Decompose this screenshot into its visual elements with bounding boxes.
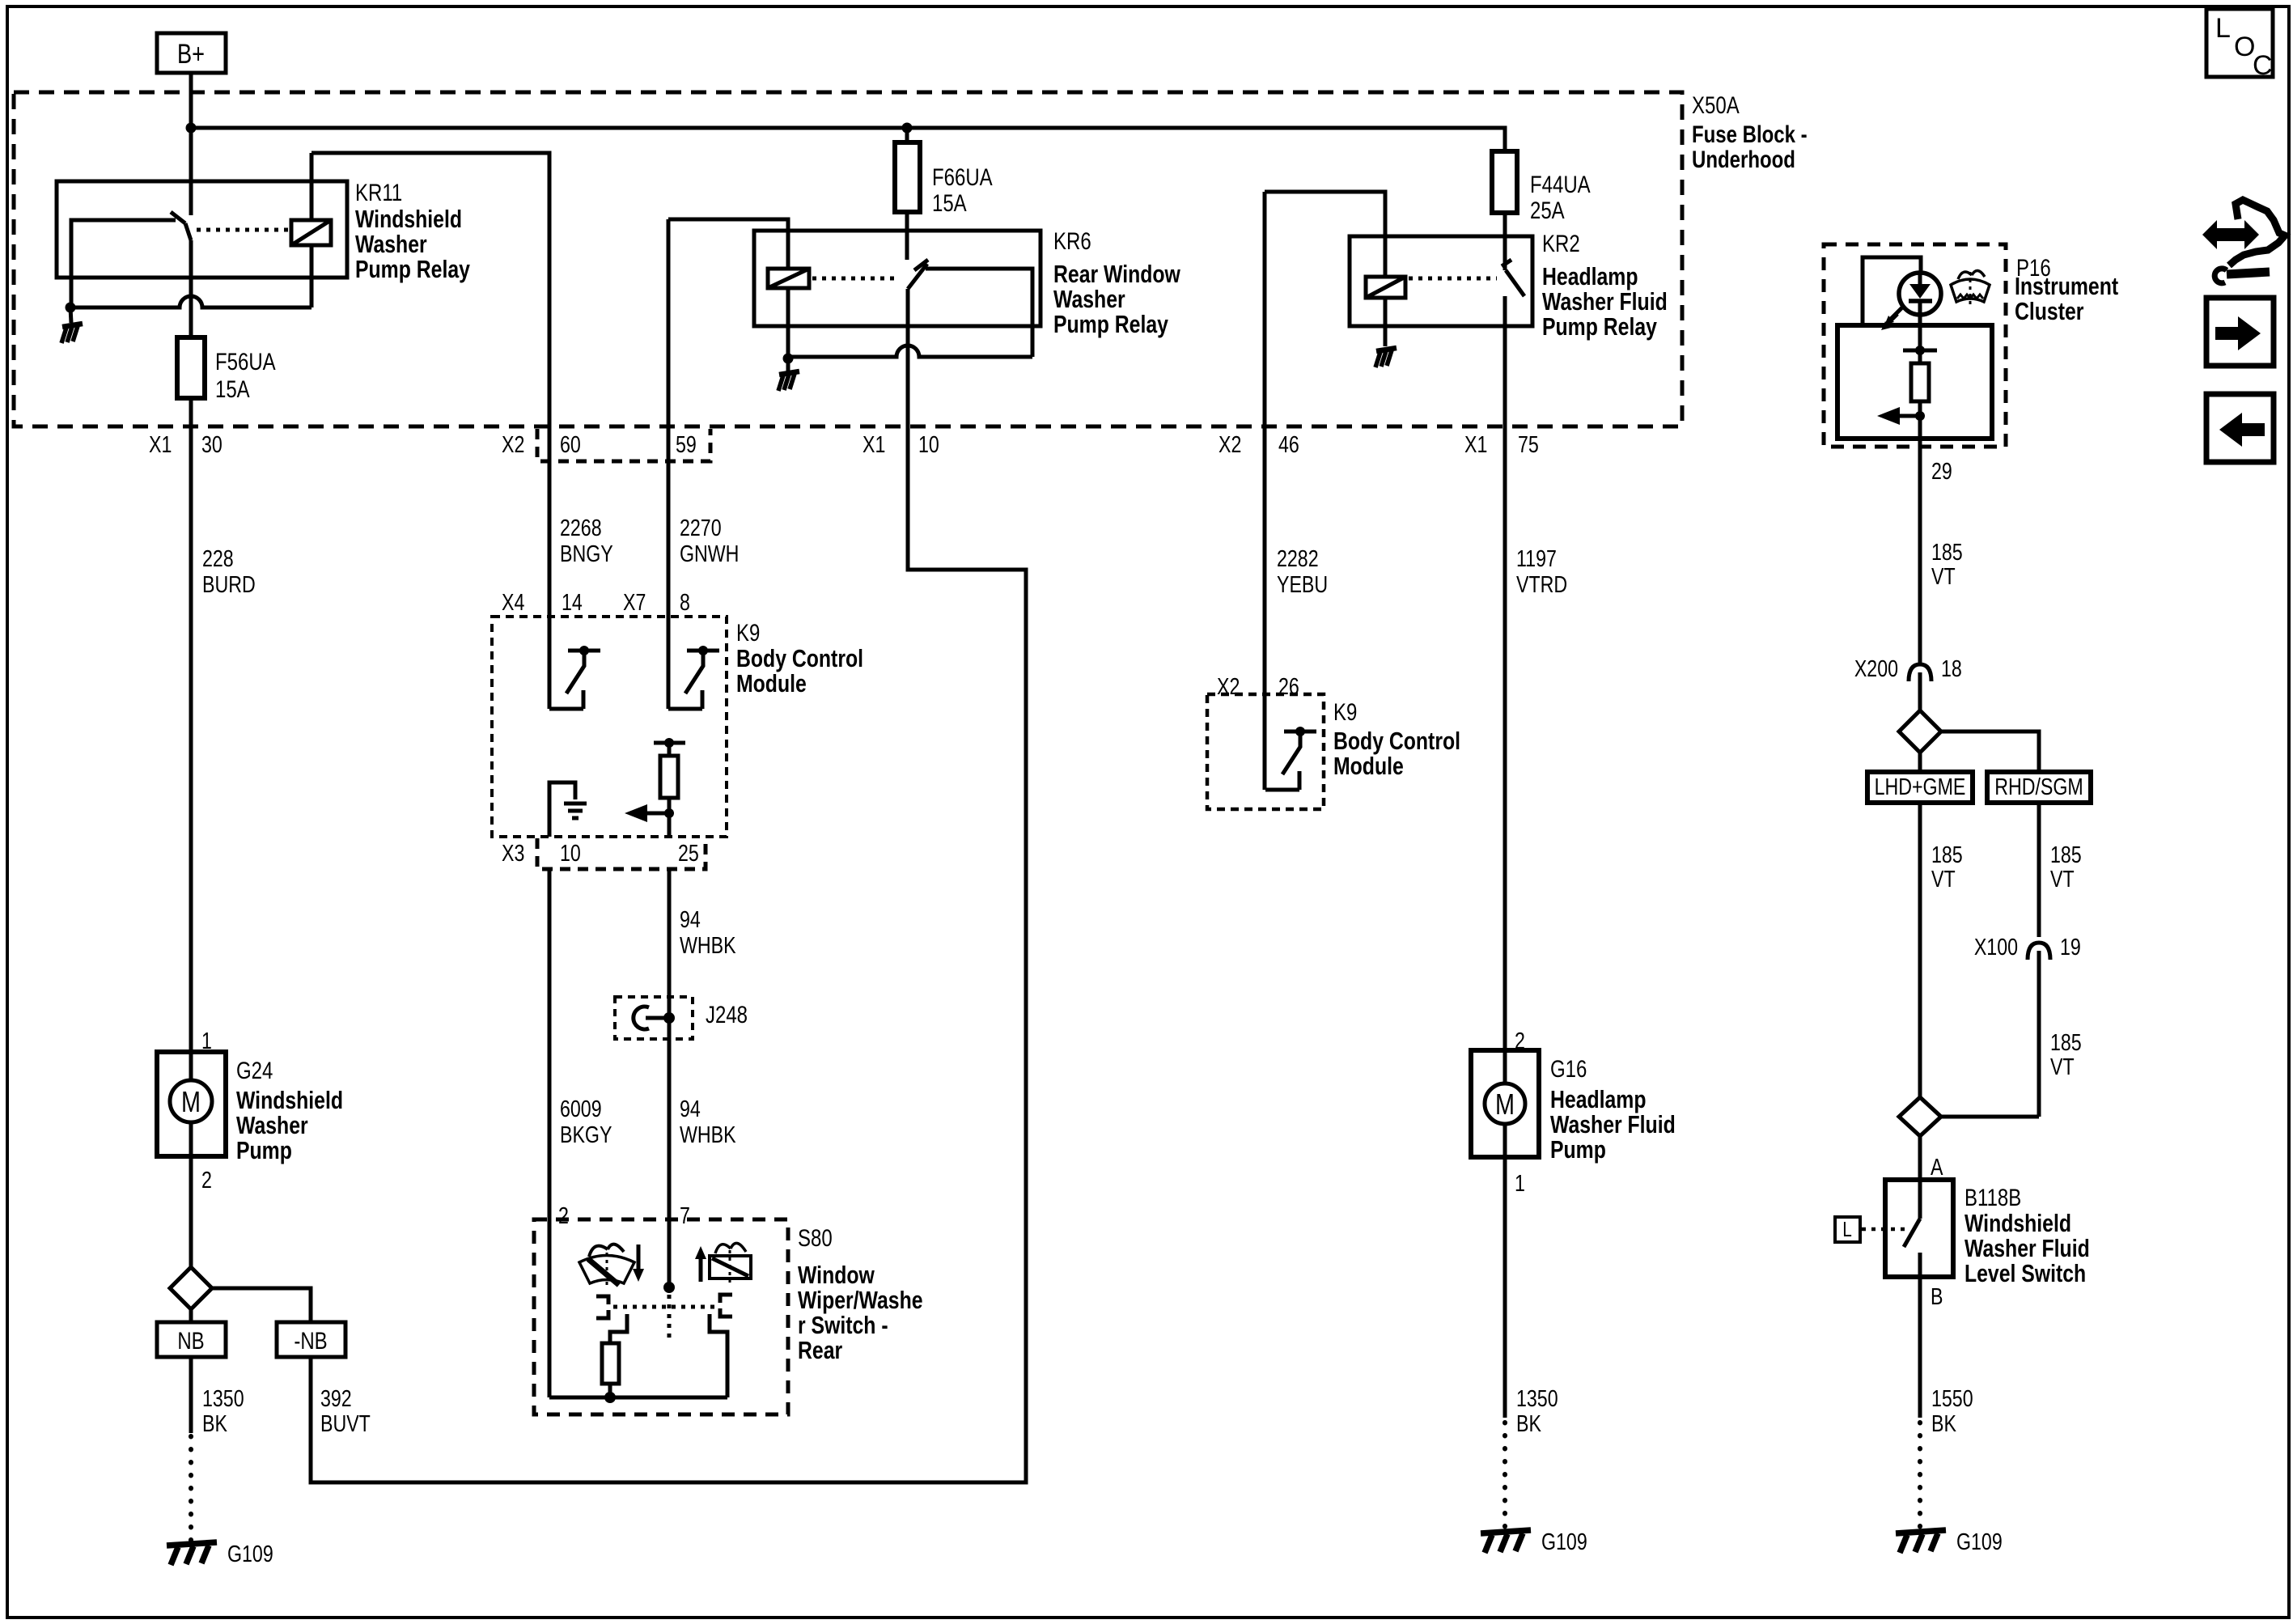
svg-text:X50A: X50A <box>1692 91 1740 118</box>
svg-text:G109: G109 <box>227 1540 273 1567</box>
svg-text:25A: 25A <box>1530 196 1565 223</box>
KR6 bottom runner with hump <box>788 346 1032 357</box>
svg-text:X1: X1 <box>149 430 172 457</box>
ground G109 left <box>167 1542 217 1565</box>
P16 internal resistor with tap <box>1903 349 1937 353</box>
svg-text:Washer Fluid: Washer Fluid <box>1550 1110 1676 1138</box>
svg-text:Washer Fluid: Washer Fluid <box>1542 287 1668 315</box>
svg-text:Windshield: Windshield <box>355 205 462 232</box>
B118B switch contacts <box>1918 1180 1922 1219</box>
splice diamond <box>170 1267 212 1309</box>
cluster P16 Instrument Cluster dashed box <box>1824 244 2006 447</box>
KR2 coil dotted link <box>1409 277 1497 281</box>
K9 output driver resistor <box>654 741 685 745</box>
svg-text:Washer Fluid: Washer Fluid <box>1965 1234 2090 1261</box>
option box NB <box>157 1322 226 1357</box>
relay KR2 Headlamp Washer Fluid Pump Relay box <box>1350 236 1532 326</box>
module K9 Body Control Module dashed box <box>492 617 727 837</box>
P16 indicator housing <box>1863 257 1921 325</box>
svg-text:X2: X2 <box>502 430 524 457</box>
K9 driver arrow <box>664 808 674 818</box>
svg-text:18: 18 <box>1941 655 1962 681</box>
svg-text:185: 185 <box>2050 841 2082 867</box>
svg-text:Pump Relay: Pump Relay <box>1053 310 1168 337</box>
wire 185 VT RHD branch <box>2037 803 2041 937</box>
svg-text:VT: VT <box>2050 865 2075 892</box>
svg-text:2: 2 <box>201 1166 212 1193</box>
svg-text:VTRD: VTRD <box>1516 570 1567 597</box>
junction node bus/F66UA <box>902 123 913 134</box>
svg-text:VT: VT <box>1931 865 1956 892</box>
KR11 coil <box>291 220 331 245</box>
twisted arrow icon <box>2202 220 2259 249</box>
svg-text:KR2: KR2 <box>1542 229 1580 257</box>
wire bus to F66UA <box>905 128 909 142</box>
option box RHD/SGM <box>1987 772 2091 803</box>
svg-text:1350: 1350 <box>1516 1384 1558 1411</box>
bus wire B+ to F44UA <box>191 128 1505 151</box>
svg-text:7: 7 <box>680 1202 690 1228</box>
svg-text:S80: S80 <box>798 1223 833 1251</box>
wire G24 to splice diamond <box>189 1156 193 1267</box>
KR6 fixed contact <box>926 269 1032 357</box>
B118B level sensor L box <box>1835 1217 1860 1242</box>
S80 resistor <box>602 1343 619 1384</box>
svg-text:K9: K9 <box>1333 698 1357 725</box>
motor G24 Windshield Washer Pump <box>157 1052 226 1156</box>
svg-text:X2: X2 <box>1219 430 1241 457</box>
svg-text:X200: X200 <box>1854 655 1898 681</box>
svg-text:G109: G109 <box>1956 1528 2003 1554</box>
K9 earth ground <box>564 804 587 818</box>
svg-text:F66UA: F66UA <box>932 163 993 190</box>
switch S80 Window Wiper/Washer Switch - Rear dashed box <box>534 1219 788 1414</box>
svg-text:2: 2 <box>558 1202 569 1228</box>
wire 6009 BKGY <box>548 869 552 1397</box>
K9 internal ground elbow <box>549 782 575 837</box>
wire 1350 BK to G109 <box>189 1357 193 1433</box>
svg-text:r Switch -: r Switch - <box>798 1311 888 1338</box>
S80 washer contact post <box>710 1314 727 1397</box>
svg-text:F44UA: F44UA <box>1530 170 1591 197</box>
svg-text:VT: VT <box>2050 1053 2075 1079</box>
svg-text:BURD: BURD <box>202 570 256 597</box>
switch B118B Windshield Washer Fluid Level Switch <box>1885 1180 1953 1277</box>
B+ battery feed box <box>157 33 226 73</box>
svg-text:94: 94 <box>680 1095 701 1122</box>
svg-text:29: 29 <box>1931 457 1952 484</box>
svg-text:185: 185 <box>2050 1028 2082 1055</box>
wire 2270 GNWH <box>667 427 671 709</box>
svg-text:WHBK: WHBK <box>680 1121 736 1147</box>
svg-text:46: 46 <box>1278 430 1299 457</box>
svg-text:X1: X1 <box>863 430 885 457</box>
svg-text:6009: 6009 <box>560 1095 602 1122</box>
svg-text:X7: X7 <box>623 588 646 615</box>
S80 wiper contact <box>596 1296 608 1318</box>
svg-text:1550: 1550 <box>1931 1384 1973 1411</box>
KR2 ground <box>1375 348 1397 367</box>
svg-text:M: M <box>181 1085 201 1118</box>
wire 1197 VTRD <box>1503 427 1507 1050</box>
KR2 switch <box>1503 236 1507 270</box>
svg-text:1350: 1350 <box>202 1384 244 1411</box>
svg-text:J248: J248 <box>706 1000 748 1028</box>
KR2 coil <box>1366 277 1405 298</box>
relay KR11 Windshield Washer Pump Relay box <box>57 181 347 278</box>
svg-text:G24: G24 <box>236 1056 273 1083</box>
svg-text:A: A <box>1931 1153 1943 1180</box>
svg-text:L: L <box>2215 13 2231 44</box>
svg-text:BNGY: BNGY <box>560 540 613 566</box>
svg-text:KR6: KR6 <box>1053 227 1091 254</box>
svg-text:14: 14 <box>562 588 583 615</box>
S80 washer contact <box>720 1295 732 1317</box>
KR11 ground node <box>66 303 76 313</box>
svg-text:BUVT: BUVT <box>320 1410 371 1436</box>
svg-text:10: 10 <box>560 839 581 866</box>
KR11 coil wires <box>310 153 314 220</box>
S80 bottom wire <box>549 1396 727 1400</box>
wire 1350 BK to G109 middle <box>1503 1157 1507 1418</box>
svg-text:Underhood: Underhood <box>1692 145 1795 172</box>
wire 94 WHBK upper <box>668 869 672 997</box>
svg-text:Washer: Washer <box>1053 285 1125 312</box>
svg-text:2270: 2270 <box>680 514 722 541</box>
S80 wiper down arrow <box>637 1245 641 1272</box>
ground G109 right <box>1896 1530 1946 1553</box>
svg-text:Windshield: Windshield <box>1965 1209 2071 1236</box>
splice diamond X200 <box>1918 689 1922 710</box>
wire 185 VT LHD branch <box>1918 803 1922 1097</box>
ground G109 middle <box>1481 1530 1531 1553</box>
wire 2268 BNGY <box>548 427 552 709</box>
svg-text:L: L <box>1842 1218 1852 1241</box>
svg-text:BK: BK <box>1516 1410 1541 1436</box>
svg-text:60: 60 <box>560 430 581 457</box>
svg-text:RHD/SGM: RHD/SGM <box>1994 773 2083 799</box>
P16 LED emission arrows <box>1891 307 1903 319</box>
svg-text:10: 10 <box>918 430 939 457</box>
svg-text:94: 94 <box>680 905 701 932</box>
svg-text:Washer: Washer <box>236 1111 308 1138</box>
svg-text:Module: Module <box>736 669 807 697</box>
KR2 coil wires <box>1265 192 1385 277</box>
svg-text:B118B: B118B <box>1965 1183 2021 1211</box>
svg-text:Rear: Rear <box>798 1336 842 1363</box>
S80 pole dotted linkage <box>668 1295 672 1343</box>
svg-text:YEBU: YEBU <box>1277 570 1328 597</box>
wire diamond to RHD branch <box>1941 731 2039 772</box>
svg-text:BK: BK <box>202 1410 227 1436</box>
svg-text:Rear Window: Rear Window <box>1053 260 1180 287</box>
X50A Fuse Block - Underhood dashed outline <box>14 92 1682 426</box>
svg-text:Level Switch: Level Switch <box>1965 1259 2086 1287</box>
svg-text:G16: G16 <box>1550 1054 1587 1082</box>
S80 pole junction <box>663 1282 675 1293</box>
wire 2282 YEBU <box>1263 427 1267 790</box>
splice J248 dashed box <box>615 997 693 1039</box>
svg-text:15A: 15A <box>215 375 250 402</box>
wire 228 BURD <box>189 427 193 1052</box>
S80 rear wiper icon <box>579 1256 634 1284</box>
right arrow box <box>2206 298 2274 366</box>
svg-text:VT: VT <box>1931 562 1956 589</box>
svg-text:WHBK: WHBK <box>680 931 736 958</box>
svg-text:Windshield: Windshield <box>236 1086 343 1113</box>
svg-text:X4: X4 <box>502 588 524 615</box>
LOC logo box <box>2206 9 2273 77</box>
fuse F66UA 15A <box>895 142 920 212</box>
svg-text:B+: B+ <box>177 38 205 70</box>
relay KR6 Rear Window Washer Pump Relay box <box>754 231 1041 326</box>
svg-text:Body Control: Body Control <box>736 644 863 672</box>
svg-text:B: B <box>1931 1283 1943 1309</box>
wire 1550 BK to G109 right <box>1918 1277 1922 1418</box>
svg-text:1: 1 <box>1515 1169 1525 1196</box>
svg-text:Pump Relay: Pump Relay <box>1542 312 1657 340</box>
option box -NB <box>277 1322 345 1357</box>
svg-text:30: 30 <box>201 430 223 457</box>
left arrow box <box>2206 394 2274 462</box>
svg-text:-NB: -NB <box>294 1326 327 1354</box>
svg-text:M: M <box>1495 1088 1515 1121</box>
svg-text:25: 25 <box>678 839 699 866</box>
svg-text:Pump: Pump <box>1550 1135 1606 1163</box>
svg-text:Module: Module <box>1333 752 1404 779</box>
svg-text:8: 8 <box>680 588 690 615</box>
fuse F44UA 25A <box>1492 151 1517 213</box>
KR11 bottom runner with hump <box>70 296 312 307</box>
svg-text:Body Control: Body Control <box>1333 727 1460 754</box>
wire B+ down <box>189 73 193 181</box>
module switch <box>668 707 702 711</box>
KR6 coil wires <box>668 219 788 269</box>
svg-text:NB: NB <box>177 1326 204 1354</box>
module K9 Body Control Module 2 dashed box <box>1207 694 1324 809</box>
S80 wiper contact post to resistor <box>610 1314 627 1343</box>
svg-text:2282: 2282 <box>1277 545 1319 571</box>
S80 resistor junction <box>604 1392 616 1403</box>
svg-text:F56UA: F56UA <box>215 347 276 375</box>
svg-text:LHD+GME: LHD+GME <box>1875 773 1966 799</box>
wire KR6 output to -NB loop <box>311 427 1026 1482</box>
svg-text:185: 185 <box>1931 841 1963 867</box>
KR11 coil dotted link <box>197 228 289 232</box>
svg-text:X1: X1 <box>1464 430 1487 457</box>
module switch <box>549 707 583 711</box>
KR11 fixed contact to ground <box>71 220 176 305</box>
P16 driver arrow <box>1915 411 1925 421</box>
svg-text:Fuse Block -: Fuse Block - <box>1692 120 1808 147</box>
svg-text:BK: BK <box>1931 1410 1956 1436</box>
P16 washer fluid icon <box>1951 279 1990 302</box>
KR6 coil dotted link <box>812 277 900 281</box>
svg-text:59: 59 <box>676 430 697 457</box>
svg-text:Headlamp: Headlamp <box>1550 1085 1646 1113</box>
KR6 ground node <box>783 354 794 364</box>
svg-text:X3: X3 <box>502 839 524 866</box>
svg-text:Headlamp: Headlamp <box>1542 262 1638 290</box>
wire diamond to -NB <box>212 1288 311 1322</box>
svg-text:Cluster: Cluster <box>2015 297 2083 324</box>
S80 washer up arrow <box>699 1256 703 1282</box>
svg-text:G109: G109 <box>1541 1528 1587 1554</box>
S80 washer icon <box>710 1256 751 1278</box>
KR6 ground <box>778 371 799 391</box>
svg-text:1197: 1197 <box>1516 545 1557 571</box>
svg-text:C: C <box>2253 50 2273 81</box>
connector X2 bracket <box>537 429 710 461</box>
connector X3 bracket <box>537 838 706 869</box>
svg-text:Pump Relay: Pump Relay <box>355 255 470 282</box>
wire 185 VT cluster to X200 <box>1918 447 1922 665</box>
svg-text:GNWH: GNWH <box>680 540 739 566</box>
svg-text:Pump: Pump <box>236 1136 292 1164</box>
KR11 ground <box>61 324 83 343</box>
svg-text:Window: Window <box>798 1261 875 1288</box>
junction node B+/bus <box>186 123 197 134</box>
svg-text:15A: 15A <box>932 189 967 216</box>
KR11 switch <box>189 181 193 215</box>
svg-text:2268: 2268 <box>560 514 602 541</box>
svg-text:392: 392 <box>320 1384 352 1411</box>
wire F56UA to pin X1-30 <box>189 398 193 427</box>
P16 indicator LED circle <box>1899 273 1941 315</box>
P16 LED diode <box>1909 284 1931 299</box>
option box LHD+GME <box>1867 772 1973 803</box>
J248 splice symbol <box>668 997 672 1219</box>
svg-text:Wiper/Washe: Wiper/Washe <box>798 1286 923 1313</box>
KR6 switch <box>905 231 909 260</box>
fuse F56UA 15A <box>177 337 205 398</box>
svg-text:BKGY: BKGY <box>560 1121 612 1147</box>
svg-text:19: 19 <box>2060 933 2081 960</box>
svg-text:Instrument: Instrument <box>2015 272 2118 299</box>
svg-text:185: 185 <box>1931 538 1963 565</box>
splice diamond B118B <box>1899 1097 1941 1136</box>
svg-text:K9: K9 <box>736 618 760 646</box>
svg-text:KR11: KR11 <box>355 178 402 206</box>
K9-2 switch <box>1265 788 1299 792</box>
svg-text:Washer: Washer <box>355 230 427 257</box>
svg-text:75: 75 <box>1518 430 1539 457</box>
svg-text:228: 228 <box>202 545 234 571</box>
P16 main box <box>1837 325 1992 439</box>
svg-text:X100: X100 <box>1974 933 2018 960</box>
motor G16 Headlamp Washer Fluid Pump <box>1471 1050 1539 1157</box>
KR6 coil <box>768 269 809 288</box>
